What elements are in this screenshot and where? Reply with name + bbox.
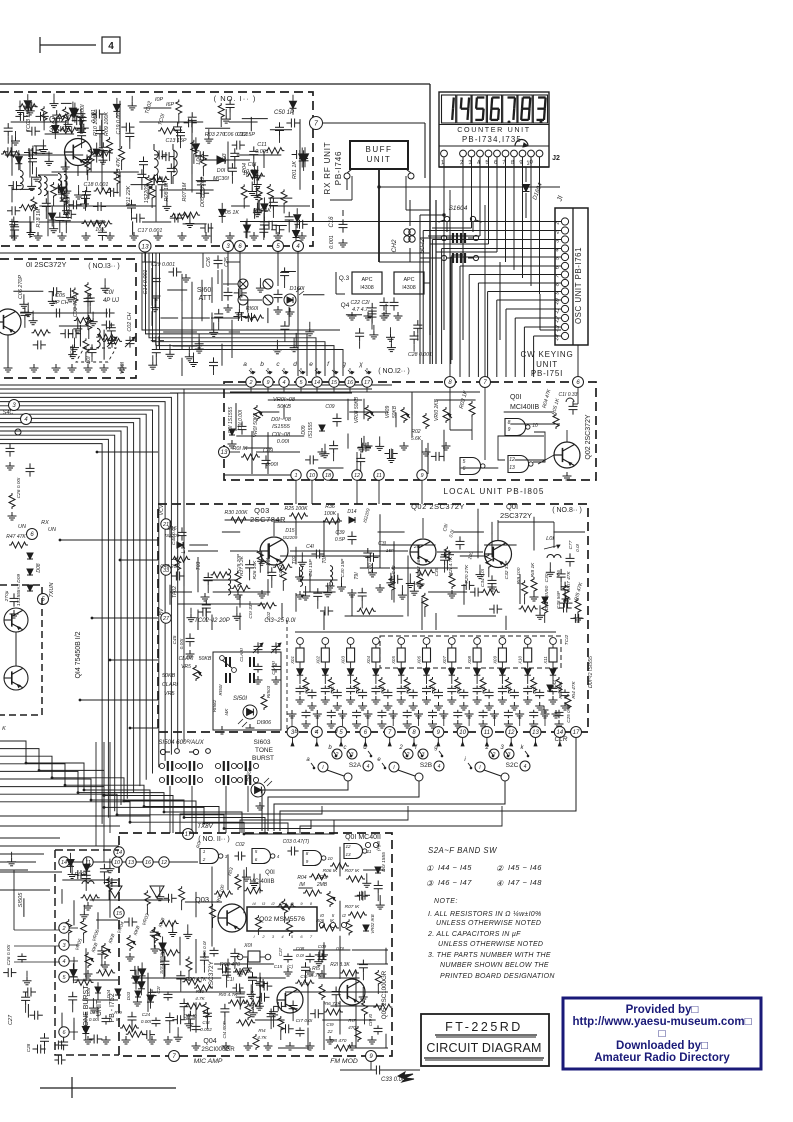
svg-text:RI8 1K: RI8 1K xyxy=(530,562,536,577)
svg-text:C0I: C0I xyxy=(248,162,257,168)
svg-text:COUNTER UNIT: COUNTER UNIT xyxy=(457,125,531,134)
svg-text:2: 2 xyxy=(335,752,339,758)
svg-text:UNIT: UNIT xyxy=(367,155,392,164)
svg-text:0I 2SC372Y: 0I 2SC372Y xyxy=(26,260,66,269)
svg-text:C37: C37 xyxy=(278,947,283,956)
svg-text:TC03 15P: TC03 15P xyxy=(26,107,32,132)
svg-text:I47 ~ I48: I47 ~ I48 xyxy=(508,878,542,887)
svg-text:I46 ~ I47: I46 ~ I47 xyxy=(438,878,472,887)
svg-text:16: 16 xyxy=(347,380,354,386)
svg-text:IS1555: IS1555 xyxy=(308,422,314,438)
svg-text:17: 17 xyxy=(573,730,580,736)
svg-text:C19 0.001: C19 0.001 xyxy=(116,110,122,135)
svg-text:4: 4 xyxy=(277,854,280,859)
svg-text:C02: C02 xyxy=(266,611,271,620)
svg-text:C06 0.001: C06 0.001 xyxy=(224,132,249,138)
svg-text:6: 6 xyxy=(255,857,258,862)
svg-text:C09: C09 xyxy=(318,944,327,949)
svg-text:D04: D04 xyxy=(106,989,111,998)
svg-text:NUMBER SHOWN BELOW THE: NUMBER SHOWN BELOW THE xyxy=(440,962,549,969)
svg-text:VRI0 2KB: VRI0 2KB xyxy=(434,398,440,421)
svg-text:D09: D09 xyxy=(301,425,307,434)
svg-text:X04: X04 xyxy=(366,656,371,665)
svg-text:RX RF UNIT: RX RF UNIT xyxy=(323,142,332,195)
svg-text:22: 22 xyxy=(326,1029,333,1034)
svg-text:CLARI: CLARI xyxy=(271,661,276,675)
svg-text:10: 10 xyxy=(459,730,466,736)
svg-text:10K: 10K xyxy=(95,227,105,233)
svg-text:27: 27 xyxy=(162,616,170,622)
svg-text:0.01: 0.01 xyxy=(532,686,537,694)
svg-text:NOTE:: NOTE: xyxy=(434,898,458,905)
svg-text:OSC UNIT PB-I761: OSC UNIT PB-I761 xyxy=(574,247,583,324)
svg-text:C06 270P: C06 270P xyxy=(18,275,24,299)
svg-text:14: 14 xyxy=(61,860,67,866)
svg-text:0.01: 0.01 xyxy=(329,686,334,694)
svg-text:9: 9 xyxy=(306,859,309,864)
svg-text:X08: X08 xyxy=(467,656,472,665)
svg-text:I45 ~ I46: I45 ~ I46 xyxy=(508,863,542,872)
svg-text:I. ALL RESISTORS IN Ω ¼w±I0%: I. ALL RESISTORS IN Ω ¼w±I0% xyxy=(428,911,542,918)
svg-text:C26: C26 xyxy=(206,257,212,267)
svg-text:CLARI: CLARI xyxy=(239,648,244,662)
svg-text:CIRCUIT DIAGRAM: CIRCUIT DIAGRAM xyxy=(426,1041,541,1055)
svg-text:DI2: DI2 xyxy=(552,680,558,688)
svg-text:2: 2 xyxy=(248,380,252,386)
svg-text:8: 8 xyxy=(306,851,309,856)
svg-text:UN: UN xyxy=(48,527,56,533)
svg-text:I6P: I6P xyxy=(166,102,174,108)
svg-text:VR5: VR5 xyxy=(164,691,175,697)
svg-text:BURST: BURST xyxy=(252,755,274,762)
svg-text:C39: C39 xyxy=(335,530,344,536)
svg-text:D14: D14 xyxy=(347,509,356,515)
svg-text:1: 1 xyxy=(203,849,206,854)
svg-text:C02: C02 xyxy=(235,842,244,848)
svg-text:0.00I: 0.00I xyxy=(179,638,185,649)
svg-text:3. THE PARTS NUMBER WITH THE: 3. THE PARTS NUMBER WITH THE xyxy=(428,952,551,959)
svg-text:C28 56P: C28 56P xyxy=(556,590,561,609)
svg-text:④: ④ xyxy=(496,879,504,888)
svg-text:C29 0.001: C29 0.001 xyxy=(151,262,175,268)
svg-text:T9I: T9I xyxy=(354,572,360,580)
svg-text:Q02 2SC372Y: Q02 2SC372Y xyxy=(411,502,465,511)
svg-text:9: 9 xyxy=(266,380,269,386)
svg-text:5: 5 xyxy=(463,459,466,465)
svg-text:13: 13 xyxy=(128,860,135,866)
svg-text:RI0 4.7K: RI0 4.7K xyxy=(219,992,238,998)
svg-text:②: ② xyxy=(496,864,504,873)
svg-text:10: 10 xyxy=(114,860,121,866)
svg-text:Q03: Q03 xyxy=(254,506,270,515)
svg-text:2: 2 xyxy=(61,926,65,932)
svg-text:S2A~F BAND SW: S2A~F BAND SW xyxy=(428,846,497,855)
svg-text:CH2: CH2 xyxy=(391,239,398,252)
svg-text:Q05 2SC1000GR: Q05 2SC1000GR xyxy=(381,970,388,1019)
svg-text:R01 1K: R01 1K xyxy=(292,161,298,179)
svg-text:TCI2: TCI2 xyxy=(564,634,570,645)
svg-text:D05 1S2209: D05 1S2209 xyxy=(200,177,206,207)
svg-text:d: d xyxy=(293,361,297,368)
svg-text:c: c xyxy=(315,729,318,735)
svg-text:17: 17 xyxy=(364,380,371,386)
svg-text:IS2209: IS2209 xyxy=(283,535,298,540)
svg-text:( NO.8·· ): ( NO.8·· ) xyxy=(552,507,582,514)
svg-text:SI60I: SI60I xyxy=(197,287,213,294)
svg-text:9: 9 xyxy=(420,473,423,479)
svg-text:12: 12 xyxy=(345,844,351,849)
svg-text:D0I 1555: D0I 1555 xyxy=(381,852,387,872)
svg-text:0.00I: 0.00I xyxy=(89,1017,100,1022)
svg-text:11: 11 xyxy=(376,473,382,479)
svg-text:13: 13 xyxy=(532,730,539,736)
svg-text:13: 13 xyxy=(141,243,149,250)
svg-text:I0P: I0P xyxy=(155,97,163,103)
svg-text:2MB: 2MB xyxy=(316,882,328,888)
svg-text:2SC372Y: 2SC372Y xyxy=(500,511,532,520)
svg-text:1S2209: 1S2209 xyxy=(66,197,72,216)
svg-text:CI3: CI3 xyxy=(202,1020,210,1025)
svg-text:T02: T02 xyxy=(292,555,298,564)
svg-text:e: e xyxy=(309,361,313,368)
svg-text:RI5: RI5 xyxy=(312,966,320,972)
svg-text:270µ: 270µ xyxy=(4,590,10,602)
svg-text:IS2209: IS2209 xyxy=(165,533,180,538)
svg-text:4: 4 xyxy=(282,380,285,386)
svg-text:C45: C45 xyxy=(172,635,178,644)
svg-text:9: 9 xyxy=(508,427,511,433)
svg-text:UNLESS OTHERWISE NOTED: UNLESS OTHERWISE NOTED xyxy=(438,941,543,948)
svg-text:APC: APC xyxy=(361,277,372,283)
svg-text:RX: RX xyxy=(41,520,49,526)
svg-text:X06: X06 xyxy=(417,656,422,665)
svg-text:0.00I: 0.00I xyxy=(141,1019,152,1024)
svg-text:50KB: 50KB xyxy=(162,673,176,679)
svg-text:http://www.yaesu-museum.com□: http://www.yaesu-museum.com□ xyxy=(572,1016,751,1028)
svg-text:14: 14 xyxy=(116,850,122,856)
svg-text:R07 IK: R07 IK xyxy=(345,904,360,910)
svg-text:VR02 IKB: VR02 IKB xyxy=(370,914,375,933)
svg-text:SI505: SI505 xyxy=(18,892,24,908)
svg-text:X0I: X0I xyxy=(266,558,272,567)
svg-text:C11: C11 xyxy=(257,142,267,148)
svg-text:100K: 100K xyxy=(324,511,337,517)
svg-text:0.01: 0.01 xyxy=(380,686,385,694)
svg-text:FM MOD: FM MOD xyxy=(330,1058,358,1065)
svg-text:C02 CH: C02 CH xyxy=(127,312,133,331)
svg-text:S2B: S2B xyxy=(420,762,432,769)
svg-text:TX8V: TX8V xyxy=(197,823,213,830)
svg-text:4.7K: 4.7K xyxy=(257,1035,267,1040)
svg-text:4: 4 xyxy=(524,764,527,770)
svg-text:R06 IK: R06 IK xyxy=(323,868,338,874)
svg-text:3: 3 xyxy=(422,752,425,758)
svg-text:I4308: I4308 xyxy=(402,285,416,291)
svg-text:Q.3: Q.3 xyxy=(339,275,350,282)
svg-text:1S2209: 1S2209 xyxy=(144,185,150,204)
svg-text:D16: D16 xyxy=(167,526,176,532)
svg-text:Q4: Q4 xyxy=(341,302,350,309)
svg-text:R08 1M: R08 1M xyxy=(164,182,170,201)
svg-text:C26 0.00I: C26 0.00I xyxy=(16,477,22,498)
svg-text:R09 100K: R09 100K xyxy=(104,112,110,136)
svg-text:L.0: L.0 xyxy=(181,546,187,553)
svg-text:10: 10 xyxy=(327,856,333,861)
svg-text:C35: C35 xyxy=(434,567,440,576)
svg-text:C13 15P: C13 15P xyxy=(166,138,187,144)
svg-text:( NO. I·· ): ( NO. I·· ) xyxy=(214,94,257,103)
svg-text:10: 10 xyxy=(309,473,316,479)
svg-text:IM: IM xyxy=(299,882,305,888)
svg-text:RI50I: RI50I xyxy=(218,684,223,696)
svg-text:15: 15 xyxy=(331,380,338,386)
svg-text:PB-I75I: PB-I75I xyxy=(531,369,563,378)
svg-text:C28: C28 xyxy=(26,1043,31,1052)
svg-text:C14 0.001: C14 0.001 xyxy=(143,270,149,295)
svg-text:R11 22K: R11 22K xyxy=(126,185,132,206)
svg-text:SI504 600ᴿ/AUX: SI504 600ᴿ/AUX xyxy=(158,739,204,746)
svg-text:S2C: S2C xyxy=(506,762,519,769)
svg-text:R07 1M: R07 1M xyxy=(182,182,188,201)
svg-text:3: 3 xyxy=(225,854,228,859)
svg-text:C27: C27 xyxy=(8,1014,14,1025)
svg-text:R06 1K: R06 1K xyxy=(253,208,271,214)
svg-text:R13 47K: R13 47K xyxy=(116,157,122,178)
svg-text:Amateur Radio Directory: Amateur Radio Directory xyxy=(594,1052,730,1064)
svg-text:S1604: S1604 xyxy=(449,205,468,212)
svg-text:C34 0.0I: C34 0.0I xyxy=(480,568,486,587)
svg-text:RI4: RI4 xyxy=(258,1028,266,1033)
svg-text:14: 14 xyxy=(314,380,320,386)
svg-text:D0I: D0I xyxy=(217,168,226,174)
svg-text:C32 33P: C32 33P xyxy=(504,560,510,579)
svg-text:R03 270: R03 270 xyxy=(205,132,225,138)
svg-text:4P UJ: 4P UJ xyxy=(103,298,120,304)
svg-text:0.01: 0.01 xyxy=(481,686,486,694)
svg-text:K: K xyxy=(2,726,6,732)
svg-text:SIS1555×4: SIS1555×4 xyxy=(159,950,165,974)
svg-text:R02: R02 xyxy=(411,429,420,435)
svg-text:R20 27K: R20 27K xyxy=(464,564,470,583)
svg-text:4: 4 xyxy=(62,959,65,965)
svg-text:RI8 470: RI8 470 xyxy=(330,1038,347,1044)
svg-text:D0I~I2 ISI555: D0I~I2 ISI555 xyxy=(588,656,594,688)
svg-text:4: 4 xyxy=(438,764,441,770)
svg-text:0.01: 0.01 xyxy=(304,686,309,694)
svg-text:TC02~I2 20P: TC02~I2 20P xyxy=(194,618,230,624)
svg-text:Q0I: Q0I xyxy=(265,870,275,876)
svg-text:VCV: VCV xyxy=(159,504,165,515)
svg-text:6: 6 xyxy=(463,466,466,472)
svg-text:4: 4 xyxy=(108,41,114,52)
svg-text:18: 18 xyxy=(325,473,332,479)
svg-text:RI9: RI9 xyxy=(114,1010,122,1016)
svg-text:1K: 1K xyxy=(243,171,250,177)
svg-text:c: c xyxy=(344,745,347,751)
svg-text:X03: X03 xyxy=(341,656,346,665)
svg-text:CI7 0.0I: CI7 0.0I xyxy=(296,1018,313,1024)
svg-text:MCI40IIB: MCI40IIB xyxy=(510,404,540,411)
svg-text:7XUN: 7XUN xyxy=(49,583,55,598)
svg-text:①: ① xyxy=(426,864,434,873)
svg-text:a: a xyxy=(243,361,247,368)
svg-text:0.5P: 0.5P xyxy=(335,537,346,543)
svg-text:3: 3 xyxy=(351,752,354,758)
svg-text:□: □ xyxy=(659,1028,666,1040)
svg-text:X0I: X0I xyxy=(243,943,253,949)
svg-text:C22 C2I: C22 C2I xyxy=(350,300,370,306)
svg-text:X07: X07 xyxy=(442,656,447,665)
svg-text:I4K: I4K xyxy=(224,708,229,716)
svg-text:R09: R09 xyxy=(196,989,205,994)
svg-text:0.01: 0.01 xyxy=(355,686,360,694)
svg-text:L0I: L0I xyxy=(86,356,92,364)
svg-text:R26 10K: R26 10K xyxy=(252,560,258,579)
svg-text:Provided by□: Provided by□ xyxy=(626,1004,699,1016)
svg-text:3: 3 xyxy=(508,752,511,758)
svg-text:CW KEYING: CW KEYING xyxy=(521,350,574,359)
svg-text:QI4 75450B I/2: QI4 75450B I/2 xyxy=(75,631,82,678)
svg-text:LOCAL UNIT PB-I805: LOCAL UNIT PB-I805 xyxy=(443,487,544,496)
svg-text:R20: R20 xyxy=(95,220,105,226)
svg-text:Q02 2SC372Y: Q02 2SC372Y xyxy=(585,414,592,459)
svg-text:C17 0.001: C17 0.001 xyxy=(138,228,163,234)
svg-text:VR5: VR5 xyxy=(181,664,191,670)
svg-text:2: 2 xyxy=(398,745,403,751)
svg-text:50KB: 50KB xyxy=(199,656,212,662)
svg-text:0.01: 0.01 xyxy=(456,686,461,694)
svg-text:Q04: Q04 xyxy=(203,1038,216,1045)
svg-text:RI503: RI503 xyxy=(266,685,271,698)
svg-text:12: 12 xyxy=(508,730,515,736)
svg-text:g: g xyxy=(342,361,346,368)
svg-text:C18 0.001: C18 0.001 xyxy=(84,182,109,188)
svg-text:T03: T03 xyxy=(196,561,202,570)
svg-text:12: 12 xyxy=(161,860,167,866)
svg-text:0.01: 0.01 xyxy=(405,686,410,694)
svg-text:UNLESS OTHERWISE NOTED: UNLESS OTHERWISE NOTED xyxy=(436,920,541,927)
svg-text:Q0I: Q0I xyxy=(510,394,521,401)
svg-text:2SCI000GR: 2SCI000GR xyxy=(201,1046,235,1053)
svg-text:2SC372Y: 2SC372Y xyxy=(208,960,215,988)
svg-text:APC: APC xyxy=(403,277,414,283)
svg-text:MC30I: MC30I xyxy=(213,176,229,182)
svg-text:X11: X11 xyxy=(543,656,548,665)
svg-text:( NO.I3·· ): ( NO.I3·· ) xyxy=(88,263,120,270)
svg-text:0.00I: 0.00I xyxy=(277,439,290,445)
svg-text:χ: χ xyxy=(358,361,363,368)
svg-text:RI7 47K: RI7 47K xyxy=(566,571,572,589)
svg-text:MCI40IIB: MCI40IIB xyxy=(249,879,274,885)
svg-text:R30 100K: R30 100K xyxy=(224,510,248,516)
svg-text:b: b xyxy=(294,729,297,735)
svg-text:C15: C15 xyxy=(274,964,283,969)
svg-text:0.002: 0.002 xyxy=(200,1027,212,1032)
svg-text:C50 1P: C50 1P xyxy=(274,110,294,116)
svg-text:5: 5 xyxy=(255,849,258,854)
svg-text:ATT: ATT xyxy=(199,295,212,302)
svg-text:11: 11 xyxy=(367,849,372,854)
svg-text:11: 11 xyxy=(484,730,490,736)
svg-text:( NO. II·· ): ( NO. II·· ) xyxy=(198,836,230,843)
svg-text:0.01: 0.01 xyxy=(431,686,436,694)
svg-text:IK: IK xyxy=(116,1017,121,1023)
svg-text:13: 13 xyxy=(345,852,351,857)
svg-text:D05: D05 xyxy=(86,987,91,996)
svg-text:13: 13 xyxy=(509,465,515,471)
svg-text:2: 2 xyxy=(492,752,496,758)
svg-text:C2I: C2I xyxy=(156,986,161,994)
svg-text:Q02 MSM5576: Q02 MSM5576 xyxy=(259,916,305,923)
svg-text:CI9: CI9 xyxy=(326,1022,334,1027)
svg-text:S2A: S2A xyxy=(349,762,362,769)
svg-text:C09: C09 xyxy=(325,404,334,410)
svg-text:R47 47K: R47 47K xyxy=(6,534,26,540)
svg-text:R25 100K: R25 100K xyxy=(284,506,308,512)
svg-text:C77: C77 xyxy=(568,540,574,549)
svg-text:RI9 100: RI9 100 xyxy=(516,567,522,584)
svg-text:1: 1 xyxy=(294,473,297,479)
svg-text:PB-I734,I735: PB-I734,I735 xyxy=(462,135,522,144)
svg-text:D03: D03 xyxy=(126,991,131,1000)
svg-text:0.001: 0.001 xyxy=(329,235,335,249)
svg-text:16: 16 xyxy=(145,860,152,866)
svg-text:2. ALL CAPACITORS IN µF: 2. ALL CAPACITORS IN µF xyxy=(427,931,521,938)
svg-text:0.001: 0.001 xyxy=(255,149,269,155)
svg-text:Q0I: Q0I xyxy=(506,502,518,511)
svg-text:C4I: C4I xyxy=(306,544,314,550)
svg-text:C24: C24 xyxy=(142,1012,151,1017)
svg-text:X02: X02 xyxy=(315,656,320,665)
svg-text:CI6: CI6 xyxy=(300,974,308,979)
svg-text:③: ③ xyxy=(426,879,434,888)
svg-text:CLARI: CLARI xyxy=(179,656,194,662)
svg-text:L0I: L0I xyxy=(546,536,554,542)
svg-text:R0I IK: R0I IK xyxy=(233,446,248,452)
svg-text:2: 2 xyxy=(202,857,206,862)
svg-text:PRINTED BOARD DESIGNATION: PRINTED BOARD DESIGNATION xyxy=(440,973,555,980)
svg-text:12: 12 xyxy=(354,473,360,479)
svg-text:FT-225RD: FT-225RD xyxy=(445,1020,523,1034)
svg-text:b: b xyxy=(260,361,264,368)
svg-text:5.6K: 5.6K xyxy=(411,436,422,442)
svg-text:MIC AMP: MIC AMP xyxy=(194,1058,223,1065)
svg-text:R07 IK: R07 IK xyxy=(345,868,360,874)
svg-text:4.7 4.7: 4.7 4.7 xyxy=(352,307,369,313)
svg-text:2SC784R: 2SC784R xyxy=(250,515,286,524)
svg-text:R10 100K: R10 100K xyxy=(93,112,99,136)
svg-text:X10: X10 xyxy=(518,656,523,665)
svg-text:Q0I MC40II: Q0I MC40II xyxy=(345,834,381,841)
svg-text:15: 15 xyxy=(116,911,123,917)
svg-text:(C): (C) xyxy=(287,964,294,969)
svg-text:RI4 47K: RI4 47K xyxy=(571,681,577,699)
svg-text:X01: X01 xyxy=(290,656,295,665)
svg-text:C25 0.0I: C25 0.0I xyxy=(566,705,571,723)
svg-text:C25: C25 xyxy=(90,1010,99,1015)
svg-text:2: 2 xyxy=(406,752,410,758)
svg-text:RI7: RI7 xyxy=(348,1018,356,1023)
svg-text:C0I 33P: C0I 33P xyxy=(248,601,254,619)
svg-text:C0I~08: C0I~08 xyxy=(272,432,291,438)
svg-text:R18 1M: R18 1M xyxy=(36,208,42,227)
svg-text:IS1555: IS1555 xyxy=(272,424,291,430)
svg-text:Downloaded by□: Downloaded by□ xyxy=(616,1040,708,1052)
svg-text:I44 ~ I45: I44 ~ I45 xyxy=(438,863,472,872)
svg-text:X05: X05 xyxy=(391,656,396,665)
svg-text:DI906: DI906 xyxy=(257,720,271,726)
svg-text:R04: R04 xyxy=(297,875,306,881)
